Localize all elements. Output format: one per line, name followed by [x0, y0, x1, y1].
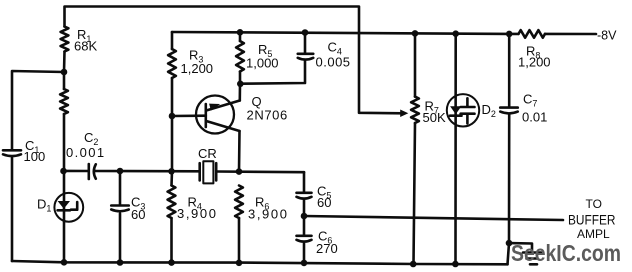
svg-text:60: 60 [317, 195, 331, 210]
svg-text:60: 60 [131, 207, 145, 222]
svg-text:AMPL: AMPL [577, 227, 610, 241]
svg-text:68K: 68K [74, 39, 97, 54]
svg-text:3,900: 3,900 [248, 207, 289, 222]
svg-text:0.001: 0.001 [66, 145, 106, 160]
svg-text:0.005: 0.005 [316, 55, 351, 70]
svg-text:BUFFER: BUFFER [568, 212, 616, 228]
svg-text:-8V: -8V [597, 29, 617, 43]
svg-text:CR: CR [198, 146, 217, 161]
svg-text:0.01: 0.01 [522, 110, 547, 125]
svg-text:270: 270 [316, 241, 338, 256]
svg-text:3,900: 3,900 [177, 206, 218, 221]
svg-text:100: 100 [24, 149, 46, 164]
svg-text:2N706: 2N706 [247, 107, 288, 122]
svg-text:D1: D1 [37, 197, 51, 214]
svg-text:1,200: 1,200 [181, 61, 214, 76]
svg-text:C7: C7 [523, 92, 537, 109]
svg-text:SeekIC.com: SeekIC.com [511, 240, 621, 266]
svg-text:50K: 50K [423, 110, 446, 125]
svg-text:TO: TO [586, 197, 602, 211]
svg-text:D2: D2 [482, 102, 496, 119]
svg-text:1,200: 1,200 [518, 55, 551, 70]
svg-text:1,000: 1,000 [246, 56, 279, 71]
